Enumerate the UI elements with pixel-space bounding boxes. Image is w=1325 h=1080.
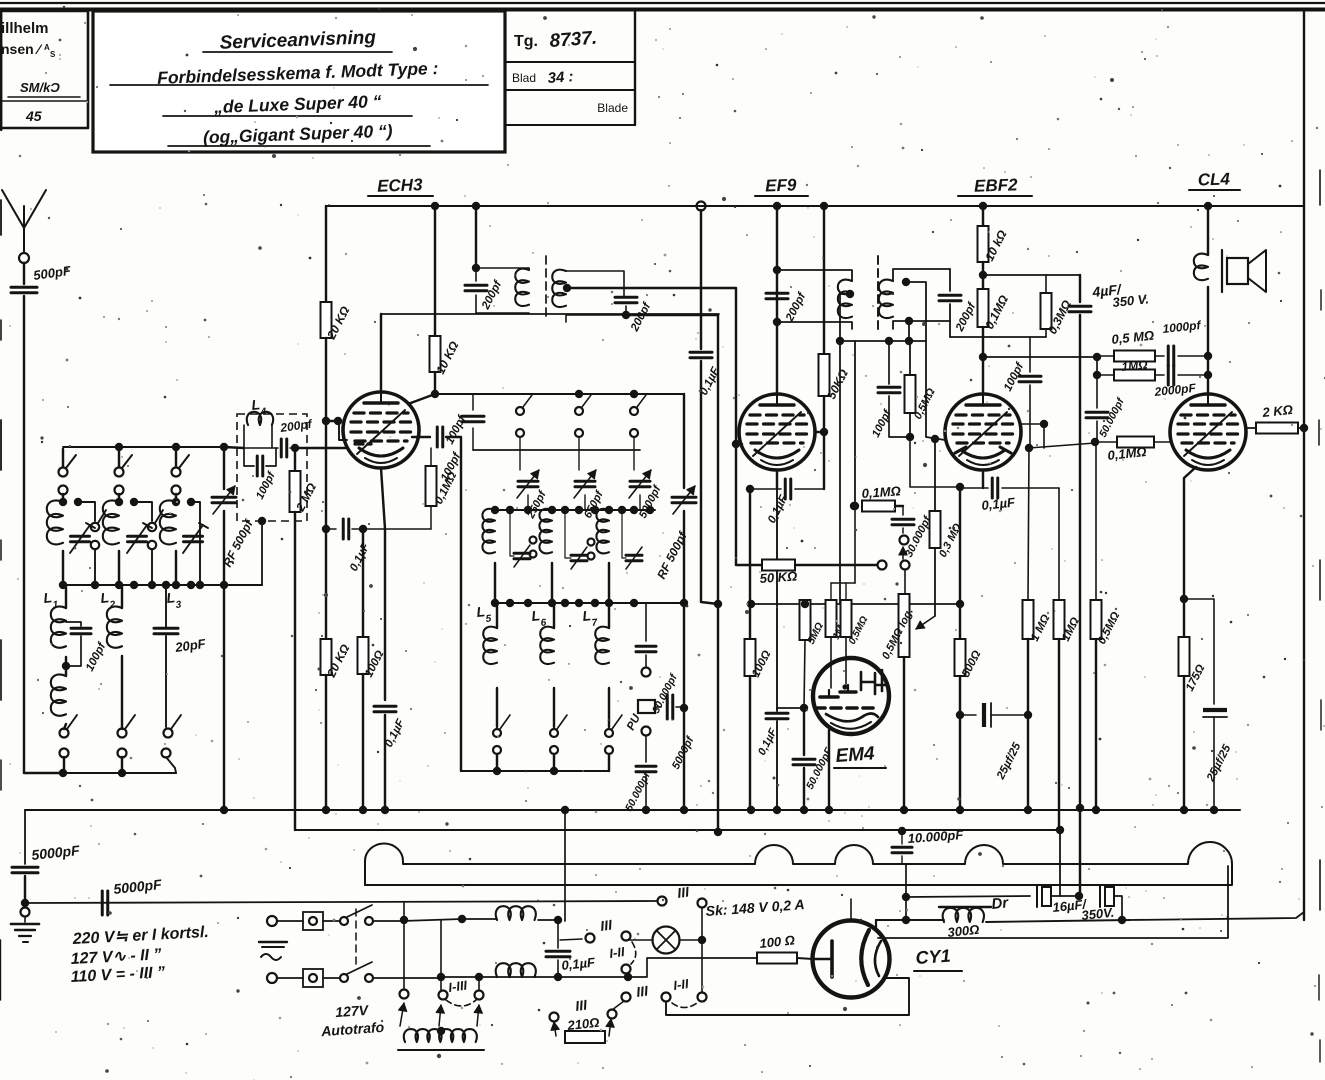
wire pot feed (904, 569, 906, 594)
label 1000pF (1162, 318, 1202, 336)
label 2k CL4 (1261, 402, 1294, 420)
switch L6 (550, 715, 567, 771)
node ground 326 (322, 806, 330, 814)
wire drop x479 (478, 977, 480, 990)
svg-text:L: L (251, 396, 261, 413)
node ground 565 (561, 806, 569, 814)
wire EBF2 cathode (982, 470, 984, 488)
node ground 1028 (1024, 806, 1032, 814)
capacitor 200pF IFT2 pri (766, 293, 788, 299)
wire band switch bottom bus (59, 769, 176, 777)
label L4 (251, 396, 268, 418)
capacitor 25uF EBF2 (956, 703, 1032, 727)
svg-text:L: L (476, 603, 486, 620)
terminal III c (622, 993, 631, 1002)
capacitor 200pF L4 (244, 439, 299, 457)
capacitor 0.1uF EF9 (746, 479, 824, 499)
label 50k AVC (759, 568, 798, 586)
resistor 0.3M EBF2 (1041, 275, 1052, 337)
wire screen riser (1096, 357, 1098, 375)
capacitor 0.1uF HT (690, 210, 722, 608)
label 210R (566, 1015, 600, 1033)
label 200pF IFT1 pri (480, 278, 505, 312)
resistor 1M row (1114, 370, 1164, 381)
border right line (1303, 9, 1305, 920)
wire det bus (950, 336, 1046, 338)
svg-text:nsen ⁄: nsen ⁄ (1, 41, 43, 57)
tube EF9 (739, 394, 815, 470)
node EM4 grid side (800, 704, 808, 712)
wire CY1 anode line (878, 866, 1228, 938)
wire mains drop x404 (403, 921, 405, 989)
node ground 1096 (1092, 806, 1100, 814)
resistor 100R EF9 (745, 489, 756, 808)
coil L4 (244, 412, 273, 448)
resistor 210R (550, 1010, 617, 1044)
capacitor 0.1uF heater (546, 921, 570, 977)
wire ground bus (25, 809, 1240, 811)
svg-text:1MΩ: 1MΩ (1121, 357, 1149, 374)
label III a (599, 916, 614, 934)
chassis outline bottom (365, 884, 1232, 886)
arrow det (899, 547, 907, 559)
coil choke Dr (906, 907, 1130, 922)
label 50000pF PU (623, 769, 653, 813)
svg-text:Tg.: Tg. (514, 33, 538, 50)
label 0.1uF heater (561, 954, 597, 973)
coil IFT1 secondary (552, 270, 626, 322)
resistor 1M b (1054, 488, 1065, 830)
resistor 0.1M det (850, 501, 903, 512)
capacitor 16uF b (1100, 885, 1126, 924)
label 30000pF det (903, 513, 934, 559)
resistor 50k EF9 screen (815, 206, 830, 489)
potentiometer 0.5M log (899, 594, 910, 808)
terminal III top circle (658, 897, 667, 906)
switch L5 (493, 715, 510, 771)
wire filter line (906, 896, 1030, 897)
ground symbol (11, 908, 39, 943)
switch L1 top (59, 449, 77, 500)
capacitor 0.1uF AVC (326, 519, 431, 539)
label 0.1uF EF9 (766, 493, 791, 526)
wire aerial coil top bus (24, 447, 224, 773)
switch L2 wave (134, 502, 163, 585)
svg-text:127V: 127V (335, 1002, 370, 1020)
label 100pF EBF2 grid (870, 407, 894, 439)
node RF line bus (220, 443, 228, 451)
label I-II right (672, 976, 689, 993)
node ground 684 (680, 806, 688, 814)
fuse mains N (277, 969, 323, 987)
switch I-II right (662, 993, 707, 1008)
coil L2 secondary (107, 585, 122, 729)
svg-text:CY1: CY1 (915, 946, 951, 968)
label 5000pF padder (637, 483, 664, 521)
wire IFT2 sec tap to grid (906, 282, 945, 440)
label L2 (100, 589, 117, 611)
switch L1 bottom (60, 715, 78, 773)
label 20k top (324, 304, 353, 343)
node ground 777 (773, 806, 781, 814)
label 0.1M osc grid (433, 470, 459, 506)
wire osc bus (435, 390, 683, 398)
capacitor 0.1uF EBF2 (960, 478, 1059, 498)
node ground 385 (381, 806, 389, 814)
resistor 50k AVC (736, 560, 876, 571)
node IFT2 sec tap (902, 278, 910, 286)
svg-text:illhelm: illhelm (1, 20, 49, 37)
switch L3 top (172, 449, 190, 500)
wire osc second bus (473, 449, 640, 451)
resistor 10k EBF2 (978, 226, 989, 289)
label 25uF EBF2 (995, 740, 1024, 782)
resistor 10k osc (430, 336, 441, 398)
svg-text:L: L (43, 589, 53, 606)
label L7 (582, 607, 599, 629)
resistor 20k ECH3 top (321, 302, 332, 423)
trimmer osc2 (565, 510, 595, 569)
resistor 20k AVC (321, 639, 332, 808)
resistor 5M EM4 (800, 600, 811, 708)
trimmer osc3 (622, 510, 642, 569)
label 10k EBF2 (982, 227, 1010, 263)
capacitor 200pF IFT2 sec (939, 269, 961, 337)
capacitor 100pF L1 (66, 622, 91, 666)
label 200pF IFT2 sec (954, 300, 979, 334)
capacitor 500pF antenna (11, 263, 37, 773)
wire ECH3 grid hook (322, 417, 347, 440)
switch I-III dashed arc (446, 1000, 476, 1006)
AC symbol (259, 942, 287, 960)
trimmer L2 padder (127, 523, 152, 553)
trimmer L3 padder (183, 523, 208, 553)
label 0.3M det (937, 521, 964, 559)
arrow to pot (916, 616, 935, 629)
resistor 2k CL4 (1246, 423, 1308, 434)
wire heater line y920 (876, 919, 906, 921)
svg-text:L: L (100, 589, 110, 606)
label 20k AVC (324, 642, 353, 681)
label 200pF L4 (278, 417, 313, 436)
wire IFT1 sec to EF9 grid (567, 288, 742, 444)
label RF 500pF osc (654, 529, 690, 581)
switch L3 bottom (162, 715, 182, 773)
wire top HT bus (326, 205, 1304, 207)
svg-text:I-III: I-III (447, 977, 468, 995)
wire CL4 bypass branch (1184, 599, 1214, 704)
label 0.5M log (880, 606, 916, 661)
label 0.5M EM4 (847, 614, 871, 646)
label 10000pF (907, 827, 965, 846)
wire ECH3 cathode (381, 468, 385, 700)
capacitor 20pF L3 (154, 581, 208, 727)
wire mains top (25, 901, 657, 903)
node ground 363 (359, 806, 367, 814)
label 1M EM4a (831, 617, 851, 641)
fuse mains L (277, 912, 323, 930)
label 2M (293, 480, 320, 514)
header company box (0, 11, 88, 128)
svg-text:SM/kƆ: SM/kƆ (20, 80, 60, 95)
switch osc3 (630, 395, 646, 470)
tube CL4 (1170, 394, 1246, 470)
wire mains drop x441 (440, 920, 442, 990)
node sw3 bus (172, 443, 180, 451)
capacitor 16uF a (1037, 885, 1083, 907)
label 50000pF EBF2 (1097, 395, 1127, 439)
label 100R EF9 (750, 649, 773, 680)
label 0.1uF AVC (348, 541, 373, 574)
svg-text:EF9: EF9 (765, 175, 797, 195)
label 50000pF EM4 (804, 745, 835, 791)
switch L2 bottom (118, 715, 136, 773)
label 4uF 350V (1091, 281, 1150, 310)
wire lamp down (701, 944, 703, 992)
trimmer RF 500pF osc (672, 394, 696, 808)
node top bus at ECH3 screen feed (472, 202, 480, 210)
resistor 0.5M EM4 (841, 583, 852, 684)
antenna (2, 190, 46, 252)
wire heater return (666, 978, 909, 1015)
terminal PU top (642, 668, 651, 677)
node ground 804 (800, 806, 808, 814)
node ground 751 (747, 806, 755, 814)
resistor 0.5M bleeder (1091, 445, 1102, 808)
svg-text:8737.: 8737. (549, 28, 598, 52)
label 16uF 350V (1052, 896, 1115, 923)
wire AVC line (322, 423, 330, 639)
resistor 0.1M CL4 grid (1095, 437, 1170, 448)
wire IFT2 sec bottom bus (836, 337, 926, 345)
wire CY1 top (850, 899, 852, 919)
terminal radio (878, 561, 887, 570)
wire EBF2 screen row (983, 353, 1101, 361)
label 650pF (582, 488, 606, 520)
wire L3 arm (191, 502, 200, 585)
resistor 175R CL4 (1179, 599, 1190, 808)
coil L1 secondary (51, 585, 70, 729)
wire IFT2 pri tap (840, 294, 850, 604)
terminal mains L (267, 916, 277, 926)
capacitor 30000pF det (892, 506, 914, 533)
switch osc1 (516, 395, 532, 470)
svg-text:50 KΩ: 50 KΩ (759, 568, 798, 586)
label 30000pF PU (650, 671, 680, 715)
label 0.5M bleeder (1096, 610, 1122, 646)
coil heater choke 1 (496, 906, 563, 924)
wire IFT1 screen feed (475, 206, 477, 268)
label ECH3 (368, 175, 433, 196)
label 1M row (1121, 357, 1149, 374)
label EM4 (834, 743, 886, 768)
label I-III (447, 977, 468, 995)
coil IFT2 primary (777, 270, 852, 329)
svg-text:45: 45 (25, 108, 42, 124)
node ground 224 (220, 806, 228, 814)
wire 0.3M branch (983, 274, 1080, 276)
label 0.1uF EM4 (756, 726, 780, 757)
arrow autotrafo 3 (474, 1005, 482, 1026)
resistor 0.5M EBF2 grid (905, 341, 916, 441)
resistor 100R ECH3 (358, 529, 369, 808)
wire heater bend (628, 958, 757, 977)
wire 210R to switch (612, 1001, 624, 1010)
label III b (574, 996, 589, 1014)
label 2000pF (1153, 381, 1197, 399)
trimmer L1 padder (70, 523, 95, 553)
wire EBF2 grid line (851, 341, 859, 510)
wire screen bus (747, 600, 964, 608)
label mains voltages (70, 924, 209, 986)
L4 dashed box (237, 414, 307, 521)
label CL4 (1189, 169, 1240, 190)
label 200pF IFT1 sec (629, 300, 654, 334)
wire L4 to ECH3 g1 (295, 447, 346, 449)
label 50k EF9 (824, 366, 851, 401)
wire ECH3 grid resistor branch (325, 206, 327, 302)
resistor 500R EBF2 (955, 487, 966, 808)
wire EF9 grid leak (732, 440, 740, 565)
capacitor 100pF L4 (244, 448, 276, 476)
wire L1-L3 mid bus (59, 581, 262, 589)
wire osc coil return bus (461, 767, 609, 775)
terminal mains N (267, 973, 277, 983)
label RF 500pF input (220, 517, 256, 569)
svg-text:I-II: I-II (672, 976, 689, 993)
label 0.3M EBF2 (1045, 297, 1074, 336)
coil IFT1 primary (476, 268, 529, 313)
svg-text:I-II: I-II (608, 944, 625, 961)
label 1M b (1060, 616, 1082, 644)
svg-text:S: S (50, 50, 56, 59)
label 500pF (32, 263, 72, 283)
wire L4 box to bus (224, 447, 266, 585)
label 300R (947, 922, 980, 940)
label EBF2 (958, 175, 1032, 196)
capacitor 4uF 350V (1069, 275, 1091, 896)
node ground 646 (642, 806, 650, 814)
wire ECH3 top feed (380, 314, 382, 392)
svg-text:0,1MΩ: 0,1MΩ (861, 483, 901, 501)
capacitor 5000pF padder (629, 470, 651, 510)
coil speaker transformer (1194, 254, 1208, 394)
wire x565 drop (564, 808, 566, 921)
terminal PU bottom (642, 727, 651, 736)
label 250pF (525, 488, 550, 521)
wire det to CL4 grid (1025, 443, 1095, 452)
coil L6 (540, 603, 554, 727)
switch osc2 (575, 395, 591, 470)
wire rectifier HT (902, 864, 910, 924)
wire EBF2 anode branch (982, 206, 984, 226)
tube ECH3 (343, 392, 419, 468)
switch L7 (605, 715, 622, 771)
label 5M EM4 (805, 621, 826, 647)
capacitor 10000pF (892, 827, 912, 864)
wire ECH3 anode (434, 206, 436, 336)
capacitor 50000pF EM4 (793, 708, 815, 808)
label 200pF IFT2 pri (784, 290, 809, 324)
wire B+ to filter (1056, 826, 1064, 896)
terminal autotrafo 3 (475, 991, 484, 1000)
svg-text:L: L (582, 607, 592, 624)
coil L2 primary (103, 498, 138, 585)
trimmer RF 500pF input (212, 447, 236, 808)
label 0.1uF cathode (383, 717, 408, 750)
wire CL4 cathode (1180, 467, 1196, 603)
coil L7 (595, 603, 609, 727)
chassis outline top (365, 842, 1232, 885)
label 100pF CL4 (1002, 360, 1027, 393)
label Sk 148V (705, 896, 805, 919)
wire EM4 grid tap (777, 707, 802, 709)
node top bus at CL4 (1204, 202, 1212, 210)
switch link dashed (355, 909, 357, 966)
node IFT1 top (472, 264, 480, 272)
wire EF9 cathode (776, 470, 778, 711)
capacitor 50000pF PU (636, 736, 656, 808)
svg-text:L: L (166, 589, 176, 606)
coil L5 (483, 603, 497, 727)
label 0.1uF EBF2 (981, 494, 1017, 513)
resistor 0.5M top (1097, 351, 1164, 362)
label CY1 (914, 946, 962, 971)
svg-text:CL4: CL4 (1197, 169, 1230, 189)
resistor 100R heater (757, 953, 813, 964)
node mains L junction (400, 916, 408, 924)
label 500R (960, 649, 983, 680)
capacitor 5000pF PU (655, 695, 684, 719)
label 1M a (1029, 613, 1052, 644)
capacitor 200pF IFT1 pri (465, 268, 487, 313)
wire heater row 2 (437, 973, 632, 981)
terminal III a (560, 934, 595, 943)
label 100R ECH3 (363, 649, 386, 680)
resistor 2M AVC (290, 448, 301, 830)
node top bus at EBF2 (979, 202, 987, 210)
wire EM4 res bracket (831, 510, 855, 583)
capacitor 1000pF (1168, 346, 1212, 366)
switch mains L (323, 905, 402, 925)
wire ground left drop (24, 810, 26, 864)
resistor 1M EM4a (826, 583, 837, 688)
arrow autotrafo 1 (398, 1003, 406, 1026)
svg-text:Blad: Blad (512, 71, 536, 85)
tube EM4 (813, 658, 889, 734)
label 0.1M EBF2 (982, 292, 1011, 331)
wire ECH3 grid cap riser (412, 427, 461, 771)
wire EM4 cathode to ground (828, 730, 830, 808)
node top bus at EF9 screen (820, 202, 828, 210)
node top bus at ECH3 anode feed (431, 202, 439, 210)
coil osc2 (539, 509, 552, 603)
node ground 1184 (1180, 806, 1188, 814)
coil heater choke 2 (496, 963, 536, 977)
capacitor 0.1uF cathode (374, 706, 396, 808)
label 10k (433, 339, 462, 377)
label PU (625, 712, 643, 732)
node ground 829 (825, 806, 833, 814)
terminal det lower (901, 561, 910, 570)
label 100pF L4 (254, 469, 278, 501)
terminal autotrafo 1 (400, 990, 409, 999)
capacitor 2000pF (1168, 365, 1212, 385)
label L1 (43, 589, 60, 611)
coil osc3 (596, 509, 609, 603)
terminal PU jack (638, 700, 655, 713)
wire HT to border (1130, 912, 1304, 920)
